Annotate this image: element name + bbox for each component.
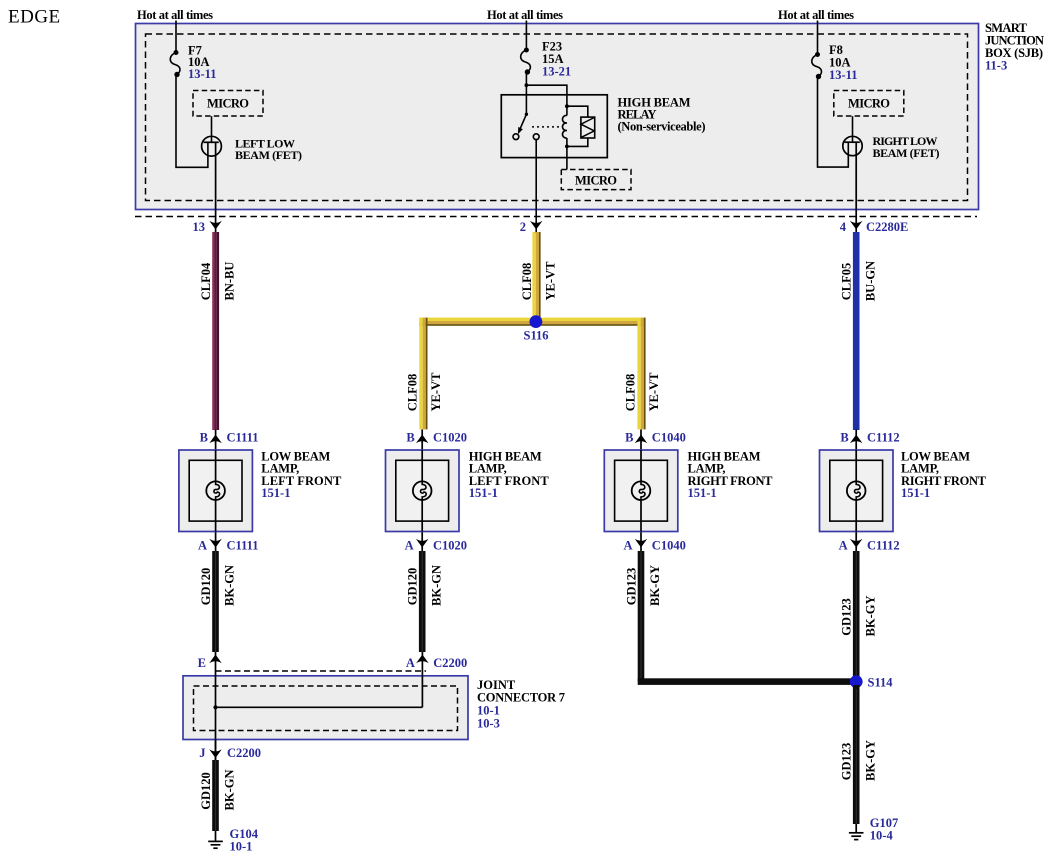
wire: fuse F23 to relay switch: [525, 71, 527, 114]
pin B C1020: [421, 430, 423, 552]
svg-text:C2200: C2200: [227, 746, 261, 760]
wire: branch to relay coil: [526, 85, 567, 106]
svg-text:GD123: GD123: [840, 743, 854, 781]
connector C2280E dashed line: [135, 216, 977, 218]
pin A C1020: [416, 539, 429, 548]
fuse F23: [521, 48, 531, 74]
relay coil: [562, 106, 566, 146]
svg-text:GD123: GD123: [840, 598, 854, 636]
svg-text:BN-BU: BN-BU: [223, 262, 237, 301]
svg-text:C1040: C1040: [652, 431, 686, 445]
wire GD123 BK-GY (S114 to G107): [853, 685, 860, 824]
svg-text:CLF08: CLF08: [406, 374, 420, 412]
wire: joint connector internal bus: [216, 706, 423, 708]
pin J C2200: [209, 749, 222, 758]
wire: yellow drop to C1020: [419, 318, 427, 430]
svg-text:C1112: C1112: [867, 431, 900, 445]
relay switch contact (output): [533, 134, 539, 140]
pin A C1111: [209, 539, 222, 548]
wire GD120 BK-GN (C2200 J to G104): [212, 760, 219, 831]
svg-text:C1111: C1111: [227, 539, 259, 553]
pin A C2200: [421, 652, 423, 707]
wire GD123 BK-GY (C1112 A to S114): [853, 551, 860, 681]
resistor (relay suppression): [567, 106, 588, 117]
svg-text:E: E: [198, 656, 206, 670]
svg-text:A: A: [839, 539, 848, 553]
svg-text:MICRO: MICRO: [207, 97, 249, 111]
svg-text:151-1: 151-1: [901, 486, 930, 500]
pin E C2200: [215, 652, 217, 760]
svg-text:BK-GN: BK-GN: [223, 770, 237, 811]
node: coil top: [565, 104, 569, 108]
svg-text:C1020: C1020: [433, 431, 467, 445]
relay switch blade: [519, 114, 527, 132]
wire: pin E path through joint connector: [215, 675, 217, 760]
wire: yellow drop to C1040: [637, 318, 645, 430]
svg-text:YE-VT: YE-VT: [429, 372, 443, 412]
wire: pin A drop to internal bus: [421, 675, 423, 707]
svg-text:BK-GN: BK-GN: [223, 565, 237, 606]
svg-text:(Non-serviceable): (Non-serviceable): [618, 119, 706, 133]
relay HIGH BEAM RELAY box: [501, 95, 607, 158]
svg-text:11-3: 11-3: [985, 59, 1007, 73]
ground G107: [849, 824, 864, 840]
svg-text:B: B: [406, 431, 414, 445]
relay switch pivot: [525, 113, 528, 116]
svg-text:10-1: 10-1: [230, 840, 253, 854]
svg-text:CONNECTOR 7: CONNECTOR 7: [477, 691, 565, 705]
svg-text:151-1: 151-1: [469, 486, 498, 500]
svg-text:Hot at all times: Hot at all times: [137, 8, 213, 22]
wire: coil bottom to MICRO: [566, 146, 568, 169]
svg-text:A: A: [405, 539, 414, 553]
wire: relay output to pin 2: [535, 140, 537, 233]
wire GD120 BK-GN (C1020 A to C2200 A): [419, 551, 426, 652]
svg-text:B: B: [200, 431, 208, 445]
svg-text:A: A: [198, 539, 207, 553]
svg-text:C1112: C1112: [867, 539, 900, 553]
svg-text:CLF08: CLF08: [520, 263, 534, 301]
svg-text:J: J: [199, 746, 205, 760]
svg-text:BK-GN: BK-GN: [429, 565, 443, 606]
svg-text:YE-VT: YE-VT: [544, 261, 558, 301]
svg-text:BK-GY: BK-GY: [863, 740, 877, 781]
svg-text:GD123: GD123: [625, 568, 639, 606]
ground G104: [208, 831, 223, 848]
svg-text:A: A: [623, 539, 632, 553]
node S114: [850, 675, 863, 688]
svg-text:10-1: 10-1: [477, 704, 500, 718]
joint connector 7 box: [183, 676, 468, 740]
svg-text:Hot at all times: Hot at all times: [778, 8, 854, 22]
svg-text:GD120: GD120: [199, 772, 213, 810]
svg-text:BEAM (FET): BEAM (FET): [873, 146, 940, 160]
SJB inner dashed outline: [146, 34, 968, 201]
relay switch contact (left): [513, 134, 519, 140]
svg-text:B: B: [625, 431, 633, 445]
svg-text:C1020: C1020: [433, 539, 467, 553]
wire CLF04 BN-BU (pin 13 to C1111): [212, 232, 219, 430]
wire: MICRO gate to FET (right): [852, 116, 854, 142]
svg-text:B: B: [840, 431, 848, 445]
wire: fuse F7 to FET source (L path): [176, 74, 208, 168]
wire: right feed into fuse F8: [817, 21, 819, 55]
wire: middle feed into fuse F23: [525, 21, 527, 50]
svg-text:13-11: 13-11: [829, 68, 857, 82]
pin A C1112: [850, 539, 863, 548]
wire GD120 BK-GN (C1111 A to C2200 E): [212, 551, 219, 652]
svg-text:10-3: 10-3: [477, 717, 500, 731]
svg-text:C2200: C2200: [433, 656, 467, 670]
MICRO box (right): [834, 91, 904, 117]
pin B C1111: [215, 430, 217, 552]
svg-text:BU-GN: BU-GN: [863, 261, 877, 301]
node: junction after F23: [525, 83, 529, 87]
svg-text:A: A: [406, 656, 415, 670]
svg-text:13-21: 13-21: [542, 65, 571, 79]
wire: MICRO gate to FET (left): [211, 116, 213, 142]
wire: yellow bus S116 horizontal: [419, 318, 645, 326]
pin B C1040: [640, 430, 642, 552]
svg-text:C1111: C1111: [227, 431, 259, 445]
svg-text:MICRO: MICRO: [575, 174, 617, 188]
transistor RIGHT LOW BEAM FET: [843, 136, 862, 233]
svg-text:CLF08: CLF08: [624, 374, 638, 412]
wire CLF05 BU-GN (pin 4 to C1112): [853, 232, 860, 430]
svg-text:Hot at all times: Hot at all times: [487, 8, 563, 22]
node: coil bottom: [565, 145, 569, 149]
wire: fuse F8 to FET source (L path): [818, 76, 849, 168]
connector C2200 dashed line: [216, 670, 427, 672]
lamp HIGH BEAM LAMP RIGHT FRONT: [604, 450, 678, 532]
MICRO box (relay): [561, 170, 631, 190]
lamp LOW BEAM LAMP RIGHT FRONT: [820, 450, 894, 532]
svg-text:BEAM (FET): BEAM (FET): [235, 148, 302, 162]
transistor LEFT LOW BEAM FET: [202, 136, 222, 233]
svg-text:C2280E: C2280E: [866, 220, 908, 234]
wire GD123 BK-GY (C1040 A to S114): [638, 551, 645, 682]
svg-text:CLF05: CLF05: [840, 263, 854, 301]
svg-text:GD120: GD120: [199, 568, 213, 606]
pin B C1112: [855, 430, 857, 552]
wire: left feed into fuse F7: [175, 21, 177, 53]
svg-text:MICRO: MICRO: [848, 97, 890, 111]
smart junction box SJB outer box: [136, 24, 979, 210]
node S116: [530, 315, 543, 328]
svg-text:S116: S116: [524, 329, 549, 343]
svg-text:2: 2: [520, 220, 526, 234]
svg-text:4: 4: [840, 220, 847, 234]
svg-text:151-1: 151-1: [688, 486, 717, 500]
svg-text:151-1: 151-1: [261, 486, 290, 500]
pin A C1040: [635, 539, 648, 548]
relay dotted actuator line: [532, 126, 559, 128]
svg-text:EDGE: EDGE: [8, 7, 61, 28]
wire CLF08 YE-VT (pin 2 to S116): [532, 232, 540, 318]
svg-text:BK-GY: BK-GY: [863, 596, 877, 637]
svg-text:13: 13: [193, 220, 206, 234]
node: joint connector junction: [213, 705, 217, 709]
lamp HIGH BEAM LAMP LEFT FRONT: [386, 450, 460, 532]
svg-text:10-4: 10-4: [870, 829, 894, 843]
svg-text:13-11: 13-11: [188, 67, 216, 81]
fuse F8: [812, 53, 822, 79]
svg-text:BK-GY: BK-GY: [648, 565, 662, 606]
svg-text:YE-VT: YE-VT: [647, 372, 661, 412]
svg-text:S114: S114: [868, 676, 894, 690]
fuse F7: [170, 51, 180, 77]
lamp LOW BEAM LAMP LEFT FRONT: [179, 450, 253, 532]
svg-text:GD120: GD120: [406, 568, 420, 606]
svg-text:CLF04: CLF04: [199, 262, 213, 300]
MICRO box (left): [193, 91, 263, 117]
svg-text:C1040: C1040: [652, 539, 686, 553]
